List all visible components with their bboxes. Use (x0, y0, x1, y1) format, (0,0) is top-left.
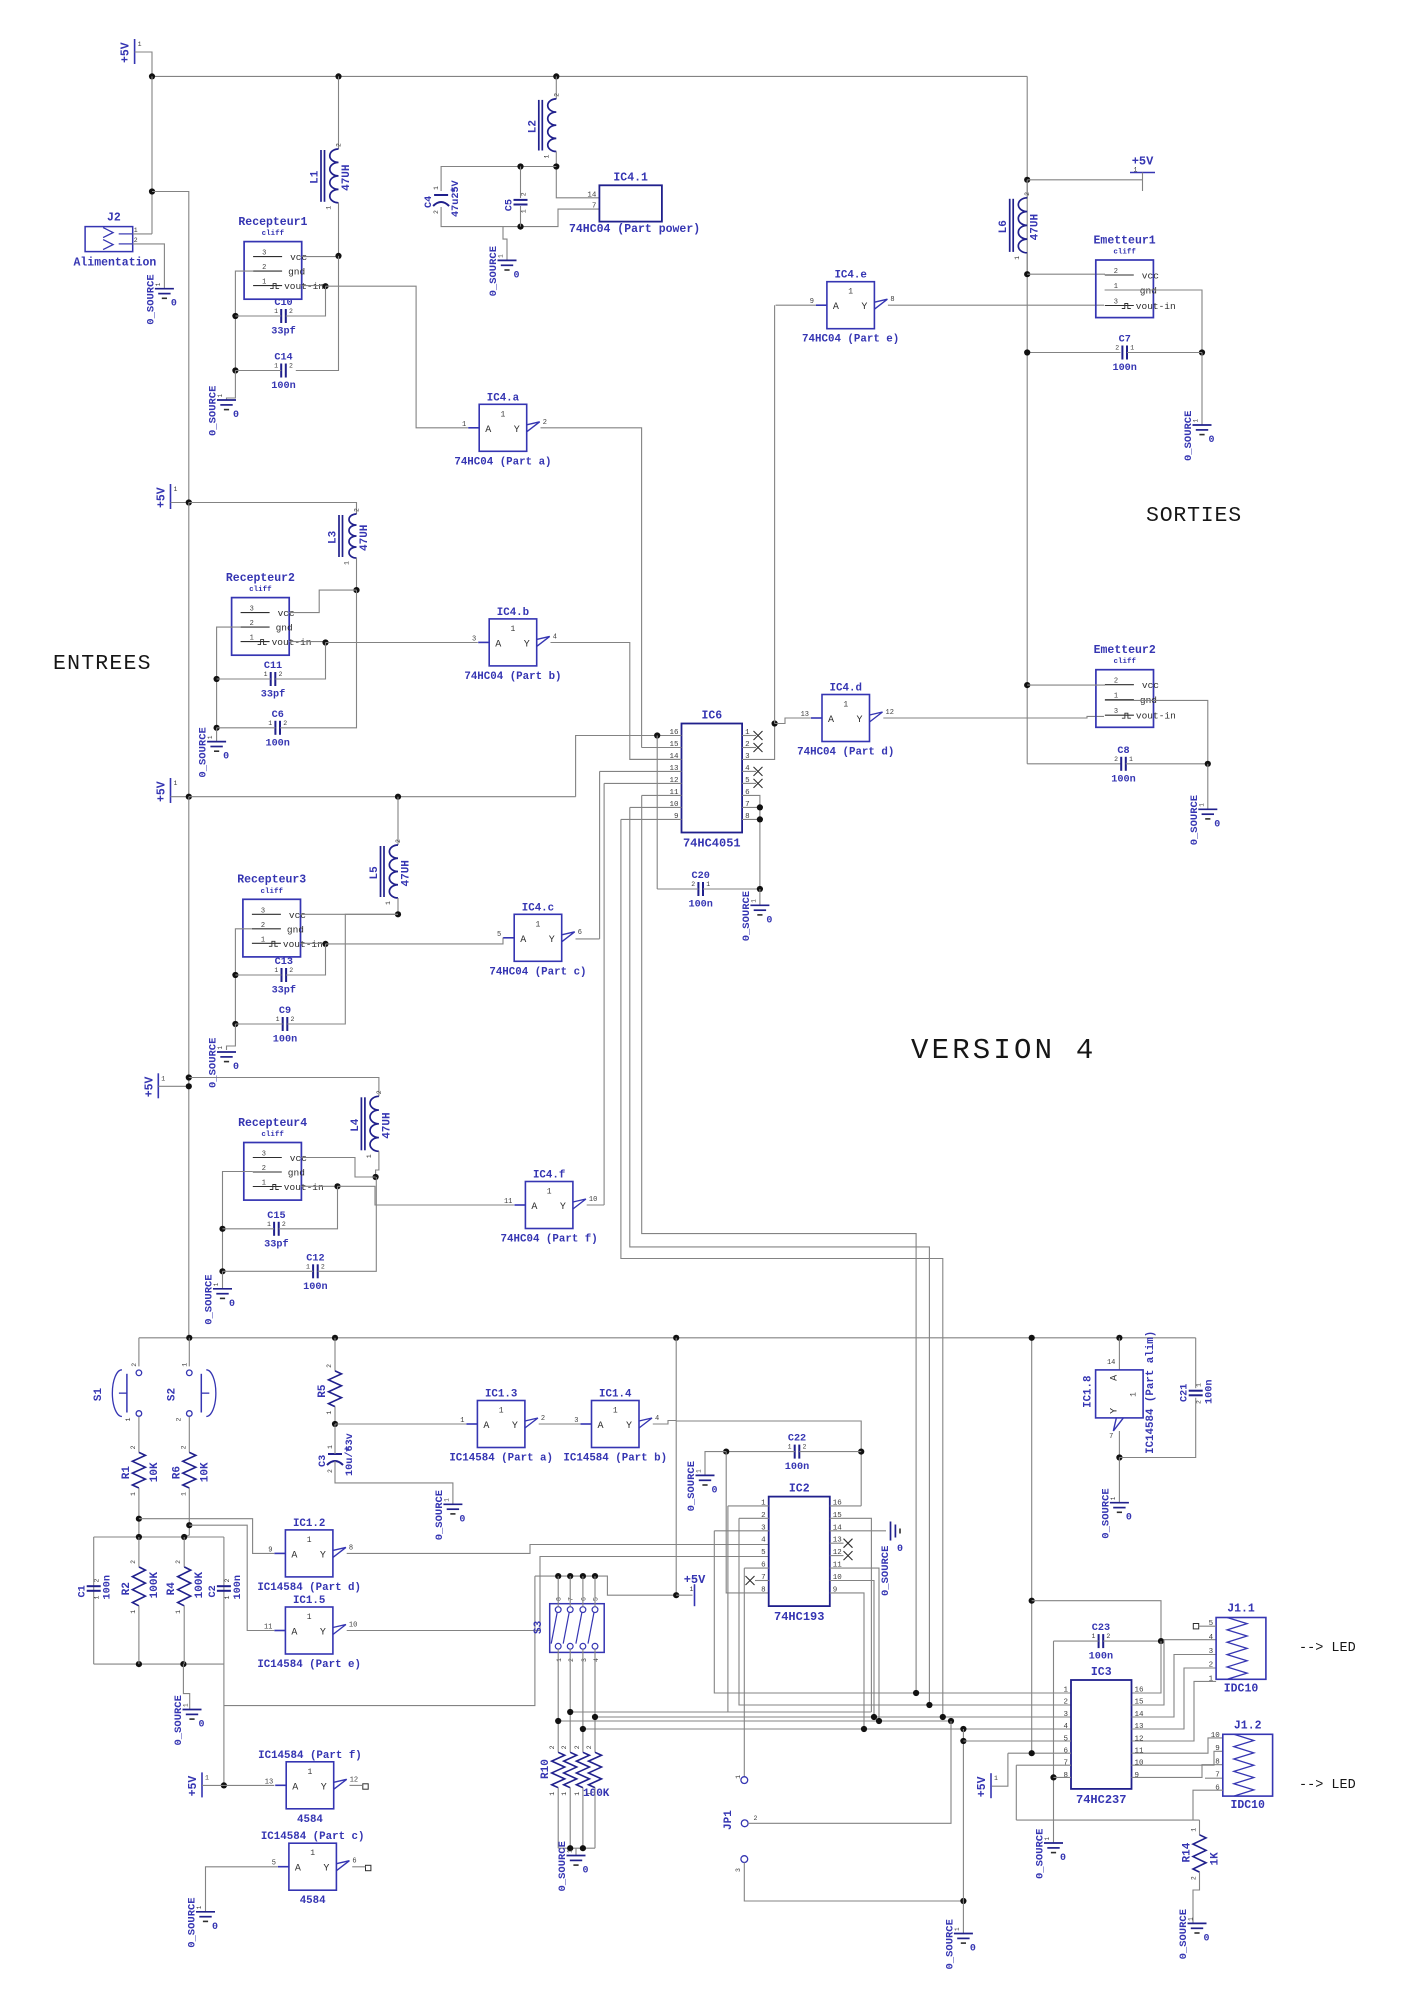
wire IC3.5 (963, 1740, 1071, 1742)
resistor R5 (317, 1364, 342, 1415)
inverter IC1.3 (449, 1389, 553, 1465)
svg-text:1: 1 (261, 936, 265, 944)
wire IC4.e out to Emetteur1 (888, 304, 1104, 306)
wire rail3 to L5 (189, 796, 576, 798)
svg-text:1: 1 (460, 1417, 464, 1425)
node IC2.3/v1 node (913, 1690, 919, 1696)
svg-text:1: 1 (180, 1492, 187, 1496)
svg-text:1: 1 (205, 1774, 209, 1781)
svg-text:S3: S3 (533, 1620, 545, 1634)
svg-text:0: 0 (583, 1866, 589, 1877)
capacitor C3 (318, 1433, 356, 1476)
svg-text:1: 1 (994, 1775, 998, 1782)
svg-text:1: 1 (499, 1407, 504, 1416)
svg-text:Y: Y (512, 1421, 518, 1432)
node R5 node (332, 1421, 338, 1427)
wire IC2.7 stub (755, 1580, 769, 1582)
wire IC3.6 (1008, 1752, 1071, 1754)
wire block bottom edge (94, 1663, 224, 1665)
svg-text:2: 2 (1115, 345, 1119, 352)
inverter IC1.8 (1083, 1331, 1158, 1454)
svg-text:3: 3 (262, 250, 266, 258)
wire Emetteur2 vcc wire (1027, 684, 1105, 686)
svg-text:1: 1 (130, 1610, 137, 1614)
svg-text:+5V: +5V (976, 1776, 989, 1797)
switch S3 (533, 1597, 604, 1662)
node top bus / J2 riser (149, 73, 155, 79)
svg-text:33pf: 33pf (272, 985, 296, 997)
wire C23 gnd drop (1053, 1641, 1055, 1843)
svg-text:0: 0 (223, 752, 229, 763)
wire R1 vout wire (302, 285, 326, 287)
wire J1.1 p5 stub (1199, 1625, 1216, 1627)
inductor L4 (350, 1090, 394, 1158)
wire block right edge (223, 1537, 225, 1664)
wire JP1.3 wire (744, 1863, 963, 1902)
wire IC3.8 (1054, 1776, 1072, 1778)
wire R2 bot wire (138, 1606, 140, 1664)
ground 0_SOURCE below C23 (1035, 1829, 1067, 1879)
wire IC6.5 stub (742, 782, 756, 784)
inductor L5 (369, 839, 413, 905)
svg-text:12: 12 (350, 1776, 358, 1784)
wire IC4.e input riser (774, 305, 776, 723)
inductor L2 (527, 93, 560, 159)
node IC6.16 node (654, 732, 660, 738)
svg-text:gnd: gnd (287, 924, 304, 935)
svg-text:0_SOURCE: 0_SOURCE (208, 1038, 220, 1088)
svg-text:1: 1 (326, 1411, 333, 1415)
wire L1 bottom to vcc (338, 203, 340, 256)
wire J2 to +5V column (152, 192, 189, 503)
svg-text:A: A (828, 715, 834, 726)
resistor R10c (574, 1745, 590, 1795)
node C5 top node (517, 163, 523, 169)
svg-text:IC1.4: IC1.4 (599, 1389, 632, 1401)
node rail S2 node (186, 1335, 192, 1341)
wire C5 top (520, 167, 522, 199)
wire C22 left (726, 1451, 795, 1453)
ground 0_SOURCE below IC1.8 (1100, 1488, 1132, 1538)
svg-text:Emetteur1: Emetteur1 (1094, 234, 1156, 247)
ground 0_SOURCE below R10 (557, 1841, 589, 1891)
svg-text:+5V: +5V (120, 42, 133, 63)
svg-text:3: 3 (735, 1868, 742, 1872)
svg-text:2: 2 (1114, 756, 1118, 763)
svg-text:+5V: +5V (143, 1076, 156, 1097)
svg-text:100n: 100n (273, 1035, 297, 1046)
wire L5 top (397, 797, 399, 845)
node R4 bottom node (180, 1661, 186, 1667)
svg-text:IC6: IC6 (701, 710, 722, 723)
svg-text:0_SOURCE: 0_SOURCE (145, 274, 157, 324)
svg-text:3: 3 (574, 1417, 578, 1425)
wire IC4.f out (587, 1204, 604, 1206)
svg-text:7: 7 (1063, 1760, 1068, 1768)
node bundle3 node (555, 1718, 561, 1724)
svg-text:1: 1 (1191, 1828, 1198, 1832)
resistor R2 (121, 1560, 161, 1614)
svg-text:2: 2 (376, 1090, 383, 1094)
svg-text:L6: L6 (998, 220, 1010, 233)
node R4 vout node (334, 1183, 340, 1189)
wire R14 top (1199, 1820, 1201, 1835)
node bundle2 node (592, 1714, 598, 1720)
svg-text:C4: C4 (424, 196, 435, 208)
svg-text:2: 2 (541, 1415, 545, 1423)
wire S3 top bus (535, 1576, 676, 1595)
svg-text:0_SOURCE: 0_SOURCE (741, 891, 753, 941)
svg-text:74HC237: 74HC237 (1076, 1793, 1126, 1807)
wire IC4.e in (776, 304, 816, 306)
svg-text:2: 2 (754, 1815, 758, 1822)
svg-text:9: 9 (1135, 1772, 1140, 1780)
svg-text:2: 2 (1063, 1699, 1068, 1707)
IC IC3 (1063, 1666, 1144, 1807)
svg-text:2: 2 (250, 620, 254, 628)
svg-text:100n: 100n (1089, 1652, 1113, 1663)
svg-text:A: A (291, 1628, 297, 1639)
wire C20 right (703, 888, 760, 890)
wire IC6.13 riser (599, 771, 601, 939)
svg-text:2: 2 (130, 1445, 137, 1449)
svg-text:2: 2 (549, 1745, 556, 1749)
wire block top edge (94, 1536, 224, 1538)
wire R4 gnd to ground (222, 1271, 224, 1289)
svg-text:C5: C5 (505, 199, 516, 211)
wire rail to S1 (138, 1338, 140, 1367)
svg-text:5: 5 (497, 931, 501, 939)
svg-text:0_SOURCE: 0_SOURCE (1178, 1909, 1190, 1959)
wire rail to S2 (188, 1338, 190, 1367)
node +5V5 node (221, 1782, 227, 1788)
wire IC2.16 (830, 1505, 861, 1507)
wire c23 link (1032, 1601, 1161, 1641)
node R10 gnd node c (580, 1845, 586, 1851)
wire rail to R5 (334, 1338, 336, 1371)
svg-text:vcc: vcc (278, 608, 295, 619)
wire C7 row (1027, 352, 1120, 354)
node R4 top node (181, 1534, 187, 1540)
svg-text:1: 1 (307, 1613, 312, 1622)
wire R10 bottom bus (558, 1847, 595, 1849)
svg-text:1: 1 (94, 1596, 101, 1600)
node gnd/C14 node (232, 367, 238, 373)
wire J2 riser (151, 76, 153, 234)
node R3 gnd C9 (232, 1021, 238, 1027)
wire IC14584f out stub (350, 1784, 363, 1786)
wire JP1.2 wire (748, 1721, 951, 1823)
wire C4C5 top edge (441, 167, 556, 192)
svg-text:IC14584 (Part alim): IC14584 (Part alim) (1145, 1331, 1157, 1454)
svg-text:vout-in: vout-in (284, 281, 324, 292)
svg-text:1: 1 (843, 701, 848, 710)
wire S3 pole3 down (582, 1649, 584, 1752)
wire from +5V to top bus (135, 52, 152, 76)
svg-text:SORTIES: SORTIES (1146, 504, 1242, 528)
wire C9 right (287, 914, 398, 1024)
svg-text:5: 5 (1063, 1735, 1068, 1743)
svg-text:IC4.b: IC4.b (497, 607, 529, 619)
wire C3 top (334, 1424, 336, 1454)
wire IC2.1 drop (727, 1506, 729, 1712)
svg-text:0_SOURCE: 0_SOURCE (1183, 411, 1195, 461)
svg-text:Y: Y (323, 1864, 329, 1875)
wire C7 gnd (1201, 353, 1203, 426)
pad IC14584f out (363, 1784, 368, 1789)
svg-text:1: 1 (561, 1792, 568, 1796)
svg-text:2: 2 (327, 1469, 334, 1473)
svg-text:3: 3 (1114, 299, 1118, 307)
wire block left edge (93, 1537, 95, 1664)
node bundle1 node (567, 1709, 573, 1715)
capacitor C2 (208, 1575, 244, 1599)
svg-text:4584: 4584 (297, 1814, 323, 1826)
svg-text:100n: 100n (1205, 1380, 1216, 1404)
node bundle2 v942 node (940, 1714, 946, 1720)
wire R6 node to IC1.5 (189, 1525, 274, 1630)
wire rail4 to L4 (189, 1078, 379, 1097)
svg-text:3: 3 (250, 606, 254, 614)
inverter IC4.a (454, 392, 551, 468)
svg-text:Recepteur3: Recepteur3 (237, 874, 306, 887)
svg-text:1: 1 (262, 1180, 266, 1188)
svg-text:2: 2 (1209, 1662, 1214, 1670)
wire IC1.8 out (1118, 1431, 1120, 1458)
svg-text:vcc: vcc (1142, 271, 1159, 282)
svg-text:cliff: cliff (262, 230, 285, 238)
svg-text:IC1.2: IC1.2 (293, 1518, 325, 1530)
node JP1.3 gnd node (960, 1898, 966, 1904)
capacitor C4 (424, 179, 462, 217)
svg-text:L1: L1 (310, 170, 322, 184)
node R1 node (136, 1516, 142, 1522)
svg-text:14: 14 (1107, 1359, 1115, 1367)
wire R3 gnd to ground (227, 1024, 236, 1050)
wire R4 vcc (301, 1158, 375, 1178)
wire bundle y1729 (583, 1728, 1071, 1730)
wire IC14584c in (206, 1867, 278, 1912)
svg-text:Y: Y (321, 1782, 327, 1793)
wire R1 node to IC1.2 (139, 1519, 274, 1554)
node bundle3 v3 node (948, 1718, 954, 1724)
svg-text:cliff: cliff (1113, 249, 1136, 257)
no-connect IC2.7 (746, 1576, 755, 1585)
wire C22 to IC2.8 (726, 1452, 769, 1593)
inverter IC4.e (802, 270, 899, 346)
wire IC3.11 to J1.2 p10 (1132, 1738, 1223, 1753)
wire IC6.11 drop (642, 795, 916, 1693)
IC IC2 (761, 1483, 842, 1625)
connector Recepteur3 (237, 874, 323, 957)
connector Recepteur2 (226, 572, 312, 655)
wire C8 row (1027, 763, 1120, 765)
svg-text:2: 2 (262, 264, 266, 272)
wire +5V3 stub (171, 796, 189, 798)
svg-text:IDC10: IDC10 (1230, 1799, 1265, 1812)
svg-text:74HC4051: 74HC4051 (683, 837, 741, 851)
wire IC14584c out stub (352, 1866, 365, 1868)
svg-text:1: 1 (462, 421, 466, 429)
node vcc node R1 (335, 253, 341, 259)
svg-text:A: A (531, 1202, 537, 1213)
node C8 node (1205, 761, 1211, 767)
label R10 value (583, 1788, 610, 1800)
wire IC2.6 drop (743, 1568, 745, 1777)
capacitor C9 (273, 1006, 297, 1046)
svg-text:L3: L3 (328, 530, 340, 544)
svg-text:0: 0 (171, 299, 177, 310)
svg-text:Y: Y (1109, 1408, 1120, 1414)
svg-text:cliff: cliff (1113, 658, 1136, 666)
svg-text:2: 2 (283, 720, 287, 727)
svg-text:2: 2 (326, 1364, 333, 1368)
svg-text:3: 3 (581, 1658, 588, 1662)
wire R2 top wire (138, 1537, 140, 1567)
wire C7 right (1127, 352, 1202, 354)
svg-text:1: 1 (134, 227, 138, 234)
node R4 gnd C12 (219, 1268, 225, 1274)
svg-text:vcc: vcc (289, 910, 306, 921)
wire L5 bottom (397, 898, 399, 914)
wire IC6.7 (742, 806, 760, 808)
svg-text:6: 6 (580, 1597, 587, 1601)
wire Emetteur1 gnd (1105, 290, 1202, 353)
wire gnd to ground R1 (227, 371, 236, 401)
svg-text:1: 1 (1091, 1633, 1095, 1640)
svg-text:14: 14 (1135, 1711, 1145, 1719)
svg-text:0: 0 (897, 1544, 903, 1555)
wire IC4.d out (883, 716, 1104, 718)
svg-text:2: 2 (180, 1445, 187, 1449)
svg-text:J1.2: J1.2 (1234, 1719, 1262, 1732)
svg-text:R10: R10 (540, 1759, 552, 1779)
wire R2 gnd to ground (216, 728, 218, 742)
svg-text:2: 2 (291, 1016, 295, 1023)
resistor R4 (166, 1560, 206, 1614)
no-connect IC6.5 (754, 779, 763, 788)
connector J2 (73, 212, 156, 270)
no-connect IC6.1 (754, 731, 763, 740)
wire left column 502-797 (188, 503, 190, 797)
node rail IC1.8 node (1116, 1335, 1122, 1341)
node bundle4 v4 node (960, 1726, 966, 1732)
svg-text:2: 2 (561, 1745, 568, 1749)
node R2 top node (136, 1534, 142, 1540)
svg-text:100n: 100n (103, 1575, 114, 1599)
node Emetteur2 vcc node (1024, 682, 1030, 688)
svg-text:R4: R4 (166, 1582, 178, 1596)
svg-text:2: 2 (568, 1658, 575, 1662)
wire C8 right (1126, 763, 1208, 765)
svg-text:IC4.1: IC4.1 (613, 171, 648, 184)
capacitor C10 (271, 298, 295, 338)
capacitor C21 (1180, 1380, 1216, 1404)
svg-text:2: 2 (321, 1263, 325, 1270)
wire IC4.a out (541, 428, 642, 748)
ground 0_SOURCE part c input (187, 1897, 219, 1947)
svg-text:IC1.8: IC1.8 (1083, 1375, 1095, 1407)
ground 0_SOURCE below R14 (1178, 1909, 1210, 1959)
svg-text:2: 2 (336, 143, 343, 147)
svg-text:10K: 10K (149, 1462, 161, 1482)
svg-text:2: 2 (261, 922, 265, 930)
wire IC2.6 (744, 1567, 768, 1569)
svg-text:2: 2 (1196, 1400, 1203, 1404)
wire IC2.9 (830, 1593, 864, 1729)
svg-text:L5: L5 (369, 866, 381, 880)
wire bundle y1712 (570, 1711, 871, 1713)
svg-text:1: 1 (175, 1610, 182, 1614)
no-connect IC2.12 (844, 1551, 853, 1560)
node IC6.8 node (757, 816, 763, 822)
svg-text:74HC193: 74HC193 (774, 1610, 824, 1624)
wire R5 to node (334, 1407, 336, 1424)
wire IC2.3 drop (714, 1531, 1071, 1693)
svg-text:0: 0 (712, 1485, 718, 1496)
svg-text:0: 0 (1214, 819, 1220, 830)
svg-text:7: 7 (1215, 1772, 1220, 1780)
svg-text:Recepteur1: Recepteur1 (238, 216, 307, 229)
wire IC6.9 (621, 818, 682, 820)
svg-text:C1: C1 (78, 1585, 89, 1597)
wire R1 down (138, 1488, 140, 1537)
svg-text:1: 1 (1209, 1675, 1214, 1683)
inductor L3 (328, 508, 372, 565)
svg-text:0_SOURCE: 0_SOURCE (1189, 795, 1201, 845)
svg-text:3: 3 (262, 1151, 266, 1159)
svg-text:C8: C8 (1117, 746, 1129, 757)
wire S3 pole1 top (557, 1576, 559, 1607)
svg-text:IC14584 (Part a): IC14584 (Part a) (449, 1453, 553, 1465)
svg-text:1: 1 (549, 1792, 556, 1796)
svg-text:2: 2 (130, 1560, 137, 1564)
svg-text:A: A (495, 639, 501, 650)
svg-text:13: 13 (1135, 1723, 1145, 1731)
ground 0_SOURCE below C4/C5 (488, 246, 520, 296)
wire block corner to S3 riser (223, 1664, 225, 1785)
svg-text:47UH: 47UH (381, 1112, 393, 1138)
svg-text:33pf: 33pf (264, 1238, 288, 1250)
wire S3 pole1 down (557, 1649, 559, 1752)
svg-text:1: 1 (327, 1445, 334, 1449)
wire R6 down (184, 1488, 189, 1537)
power +5V top-left (120, 39, 142, 64)
svg-text:1: 1 (366, 1154, 373, 1158)
svg-text:0_SOURCE: 0_SOURCE (557, 1841, 569, 1891)
capacitor C13 (272, 957, 296, 997)
svg-text:100n: 100n (303, 1282, 327, 1293)
svg-text:11: 11 (1135, 1748, 1145, 1756)
wire IC6.10 (630, 806, 682, 808)
node J2 node (149, 188, 155, 194)
resistor R14 (1182, 1828, 1222, 1880)
svg-text:1: 1 (690, 1586, 694, 1593)
svg-text:Y: Y (514, 425, 520, 436)
svg-text:9: 9 (1215, 1745, 1220, 1753)
wire C6 right (280, 590, 357, 728)
svg-text:2: 2 (1191, 1876, 1198, 1880)
connector J1.1 (1209, 1603, 1266, 1696)
svg-text:2: 2 (134, 237, 138, 244)
wire S3 pole3 top (582, 1576, 584, 1607)
svg-text:Y: Y (560, 1202, 566, 1213)
svg-text:1: 1 (174, 780, 178, 787)
svg-text:100K: 100K (194, 1572, 206, 1599)
wire C20 left (657, 888, 698, 890)
wire R3 gnd (235, 929, 252, 1024)
wire +5V top bus (152, 75, 1027, 77)
